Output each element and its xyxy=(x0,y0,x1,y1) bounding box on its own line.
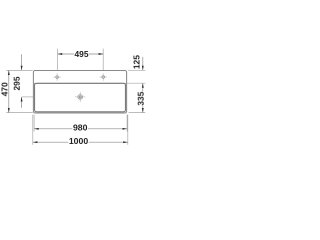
dim 1000 extension line left xyxy=(32,115,34,145)
dim 470 extension line bottom xyxy=(6,112,32,114)
basin outer outline xyxy=(33,71,126,114)
dim 295 line upper xyxy=(21,54,23,70)
dim 980 extension line right xyxy=(126,115,128,132)
svg-text:495: 495 xyxy=(75,49,89,59)
dim 1000 line xyxy=(33,141,128,143)
drain xyxy=(75,92,85,102)
right extension line deck xyxy=(127,82,145,84)
dim 295 extension line xyxy=(22,96,34,98)
svg-text:1000: 1000 xyxy=(69,136,88,146)
dim 470 line xyxy=(8,70,10,112)
faucet hole right xyxy=(99,73,107,81)
dim 335 line xyxy=(142,83,144,112)
dim 295 line lower xyxy=(21,97,23,108)
dim 125 line xyxy=(142,57,144,70)
svg-text:125: 125 xyxy=(132,55,142,69)
dim 470 extension line top xyxy=(6,69,32,71)
faucet hole left xyxy=(53,73,61,81)
dim 980 extension line left xyxy=(33,115,35,132)
svg-text:980: 980 xyxy=(73,122,88,132)
svg-text:470: 470 xyxy=(0,82,10,96)
basin deck line xyxy=(33,82,126,84)
dim 495 line xyxy=(58,53,104,55)
svg-text:335: 335 xyxy=(136,91,146,105)
right extension line top edge xyxy=(128,69,145,71)
dim 495 extension line right xyxy=(102,49,104,71)
dim 495 extension line left xyxy=(57,49,59,71)
dim 980 line xyxy=(34,128,127,130)
dim 1000 extension line right xyxy=(127,115,129,145)
basin bowl xyxy=(35,83,126,112)
svg-text:295: 295 xyxy=(12,76,22,90)
right extension line bottom edge xyxy=(129,112,146,114)
